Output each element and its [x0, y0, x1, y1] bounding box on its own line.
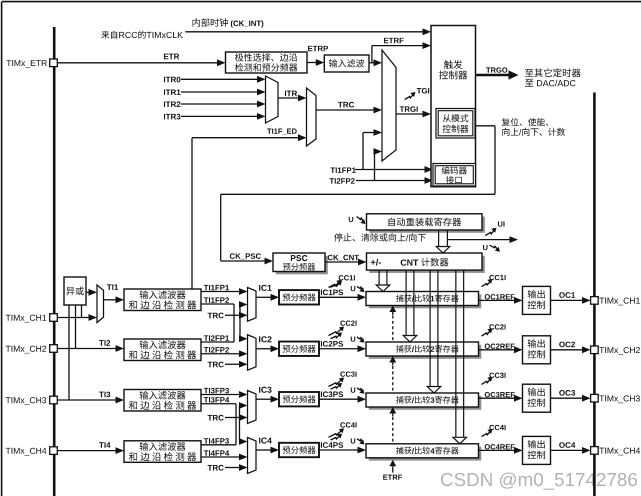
- label ITR0: [164, 77, 180, 83]
- label ETRF: [384, 38, 404, 43]
- register CNT 计数器 counter: [369, 256, 485, 273]
- box 输出控制 output control 1: [523, 286, 551, 314]
- label UI update interrupt: [485, 229, 495, 235]
- wire TI2FP2 to encoder: [356, 180, 426, 182]
- label TI4FP3: [204, 438, 229, 444]
- wire TI1FP1: [201, 291, 240, 293]
- mux TRC selector: [307, 88, 317, 146]
- node TIMx_CH3 left pin: [6, 397, 47, 405]
- node TIMx_CH2 right pin: [591, 346, 599, 354]
- label CC3I left: [340, 371, 356, 376]
- mux IC1 selector: [248, 288, 257, 322]
- label CC2I left: [340, 320, 356, 325]
- label OC4: [559, 442, 575, 448]
- box 编码器接口 encoder interface: [433, 164, 476, 187]
- node TIMx_CH3 right pin: [591, 394, 599, 402]
- watermark: [441, 472, 637, 489]
- label CC3I right: [489, 373, 505, 378]
- register 自动重装载寄存器 auto-reload: [369, 217, 485, 233]
- wire IC4: [256, 449, 272, 451]
- wire OC2REF: [479, 349, 516, 351]
- label U event capture 1: [351, 286, 356, 291]
- register 捕获/比较3寄存器 capture/compare: [369, 396, 482, 410]
- box 触发控制器 trigger controller: [431, 26, 476, 187]
- wire ITR2: [181, 103, 258, 105]
- event arrow above IC2PS: [331, 334, 341, 339]
- label TI1FP2: [204, 297, 229, 302]
- wire TRC stub: [225, 467, 240, 469]
- wire TRC stub: [225, 363, 240, 365]
- wire OC1: [551, 299, 584, 301]
- label OC2: [559, 342, 575, 348]
- label OC2REF: [485, 344, 515, 349]
- wire TRGI: [396, 113, 424, 115]
- wire counter compare bus to capture/compare 3: [429, 270, 431, 387]
- wire CK_INT: [185, 31, 423, 33]
- label TI1FP1: [330, 168, 355, 173]
- box 输入滤波 input filter: [324, 55, 369, 72]
- wire OC3: [551, 397, 584, 399]
- wire TRC: [316, 109, 375, 111]
- label TI1: [107, 284, 118, 290]
- node TIMx_CH4 left pin: [6, 448, 47, 456]
- node TIMx_CH1 left pin: [6, 315, 47, 323]
- wire TI2FP1 cross up: [239, 305, 241, 339]
- label ITR2: [164, 101, 180, 107]
- label CK_PSC: [230, 253, 261, 259]
- wire IC1: [256, 296, 272, 298]
- box 极性选择、边沿检测和预分频器: [226, 52, 308, 73]
- border frame top/left: [2, 1, 641, 3]
- label ITR: [285, 91, 297, 97]
- wire TI4FP4: [201, 456, 240, 458]
- wire ITR1: [181, 91, 258, 93]
- wire ETRF: [369, 62, 372, 64]
- label TI4FP4: [204, 450, 229, 455]
- label 来自RCC的TIMxCLK: [101, 31, 183, 39]
- label 至其它定时器 至 DAC/ADC: [525, 68, 581, 77]
- label TIMx_ETR: [6, 60, 47, 68]
- node TIMx_CH1 right pin: [591, 297, 599, 305]
- node TIMx_CH4 right pin: [591, 447, 599, 455]
- label IC1PS: [321, 290, 343, 296]
- wire ITR: [278, 97, 299, 99]
- chip boundary right line: [593, 93, 596, 496]
- label TI1F_ED: [267, 129, 297, 135]
- wire TI1 to input filter: [104, 299, 117, 301]
- wire TI1FP2 cross down: [233, 304, 235, 342]
- label 内部时钟 (CK_INT): [193, 18, 228, 26]
- wire TI2: [57, 348, 116, 350]
- label IC3: [259, 387, 271, 393]
- box 输入滤波器和边沿检测器 channel 2: [124, 339, 201, 361]
- box 预分频器 prescaler channel 1: [279, 290, 319, 304]
- wire ETRF branch to trigger mux: [372, 62, 375, 64]
- box 输入滤波器和边沿检测器 channel 3: [124, 390, 201, 412]
- wire XOR output: [86, 291, 90, 293]
- wire TI4FP3 cross up: [239, 406, 241, 442]
- box 输入滤波器和边沿检测器 channel 4: [124, 441, 201, 463]
- wire TRGO: [476, 74, 510, 77]
- wire IC2: [256, 348, 272, 350]
- wire IC2PS: [319, 348, 359, 350]
- wire counter compare bus to capture/compare 1: [378, 270, 380, 285]
- hollow arrow ARR to CNT: [438, 230, 440, 247]
- register 捕获/比较4寄存器 capture/compare: [369, 447, 482, 461]
- label TRC channel 4: [208, 465, 224, 471]
- wire IC3PS: [319, 398, 359, 400]
- label CC1I left: [339, 275, 355, 280]
- label CC2I right: [489, 324, 505, 329]
- wire TI1FP2: [201, 303, 234, 305]
- wire IC4PS: [319, 449, 359, 451]
- wire ETR: [57, 62, 218, 64]
- wire TI1FP1 to encoder: [355, 169, 426, 171]
- label IC1: [259, 285, 272, 291]
- label CK_CNT: [328, 255, 359, 261]
- wire ITR3: [181, 115, 258, 117]
- mux TI1 selector: [97, 285, 104, 323]
- label OC1: [559, 292, 575, 298]
- wire TI3FP4: [201, 403, 236, 405]
- wire OC4: [551, 449, 584, 451]
- label ETR: [164, 54, 179, 60]
- label TI1FP1: [204, 285, 229, 290]
- wire CH1 to TI1 mux: [57, 317, 89, 319]
- wire OC2: [551, 349, 584, 351]
- mux IC4 selector: [248, 438, 257, 474]
- label TRGO: [486, 67, 507, 72]
- label OC3REF: [485, 392, 515, 397]
- wire TI1F_ED from CH1 filter: [191, 138, 193, 289]
- label OC1REF: [485, 294, 515, 299]
- wire CK_CNT: [325, 261, 359, 263]
- wire U event out: [447, 239, 510, 241]
- label TRGI: [400, 106, 418, 112]
- label TI4: [99, 442, 110, 448]
- label U event down: [483, 245, 488, 250]
- box 输出控制 output control 2: [523, 336, 551, 364]
- label ETRF bottom: [383, 475, 402, 480]
- wire ETRP: [307, 62, 317, 64]
- wire TI2FP1: [201, 341, 234, 343]
- label TI2FP1: [204, 335, 229, 340]
- box 输入滤波器和边沿检测器 channel 1: [124, 289, 201, 311]
- label TI3: [99, 392, 110, 398]
- label TI2: [99, 340, 110, 346]
- wire TRC stub: [225, 417, 240, 419]
- wire counter compare bus to capture/compare 4: [455, 270, 457, 438]
- box 输出控制 output control 3: [523, 384, 551, 412]
- wire TI4FP3: [201, 444, 236, 446]
- label 停止、清除或向上/向下: [334, 233, 426, 241]
- label IC2PS: [321, 341, 343, 347]
- event arrow above IC1PS: [331, 282, 341, 287]
- wire TI3: [57, 399, 116, 401]
- wire IC3: [256, 398, 272, 400]
- wire counter compare bus to capture/compare 2: [405, 270, 407, 336]
- label IC4PS: [321, 442, 343, 448]
- label TGI with event arrow: [405, 94, 414, 100]
- node TIMx_CH2 left pin: [6, 346, 47, 354]
- wire slave mode controller feedback to CK_PSC: [475, 125, 495, 127]
- mux trigger input selector: [382, 50, 396, 161]
- label CC1I right: [489, 275, 505, 280]
- label TRC channel 3: [208, 415, 224, 421]
- label TRC channel 2: [208, 362, 224, 368]
- gate 异或 XOR: [64, 277, 86, 305]
- label TI3FP3: [204, 388, 229, 394]
- box 从模式控制器 slave mode controller: [436, 109, 475, 139]
- wire TI4: [57, 450, 116, 452]
- mux ITR selector: [266, 76, 279, 123]
- label IC3PS: [321, 391, 343, 397]
- label ETRP: [308, 46, 328, 51]
- label ITR3: [164, 114, 180, 120]
- box 输出控制 output control 4: [523, 436, 551, 464]
- box 预分频器 prescaler channel 3: [279, 392, 319, 406]
- label IC4: [259, 437, 272, 443]
- wire IC1PS: [319, 296, 359, 298]
- mux IC2 selector: [248, 335, 257, 371]
- label U event capture 3: [351, 388, 356, 393]
- label TI3FP4: [204, 397, 229, 403]
- wire XOR inputs from CH1/CH2/CH3: [68, 305, 70, 400]
- chip boundary left line: [53, 27, 56, 496]
- wire ITR0: [181, 78, 258, 80]
- label TRC: [338, 102, 354, 108]
- pin TIMx_ETR: [50, 59, 58, 67]
- wire OC1REF: [479, 299, 516, 301]
- label CC4I left: [340, 422, 356, 427]
- box 预分频器 prescaler channel 2: [279, 342, 319, 356]
- event arrow above IC4PS: [331, 435, 341, 440]
- wire TI2FP2: [201, 353, 240, 355]
- wire TI3FP4 cross down: [235, 404, 237, 445]
- label U event into ARR: [349, 217, 354, 222]
- event arrow above IC3PS: [331, 384, 341, 389]
- register PSC 预分频器 prescaler: [276, 256, 328, 274]
- label U event capture 2: [351, 337, 356, 342]
- label CC4I right: [489, 425, 505, 430]
- label TI2FP2: [204, 347, 229, 352]
- label U event capture 4: [351, 438, 356, 443]
- label TRC channel 1: [208, 313, 224, 319]
- label OC3: [559, 390, 575, 396]
- wire TRC stub: [225, 314, 240, 316]
- label IC2: [259, 336, 271, 342]
- mux IC3 selector: [248, 391, 257, 424]
- box 预分频器 prescaler channel 4: [279, 443, 319, 457]
- label TI2FP2: [329, 178, 354, 183]
- register 捕获/比较2寄存器 capture/compare: [369, 345, 482, 359]
- wire TI3FP3: [201, 394, 240, 396]
- label 复位、使能、向上/向下、计数: [502, 118, 549, 126]
- label OC4REF: [485, 444, 515, 449]
- label ITR1: [164, 89, 181, 95]
- wire OC3REF: [479, 397, 516, 399]
- register 捕获/比较1寄存器 capture/compare: [369, 294, 482, 308]
- wire OC4REF: [479, 449, 516, 451]
- wire ETRF dashed to capture registers: [389, 306, 396, 313]
